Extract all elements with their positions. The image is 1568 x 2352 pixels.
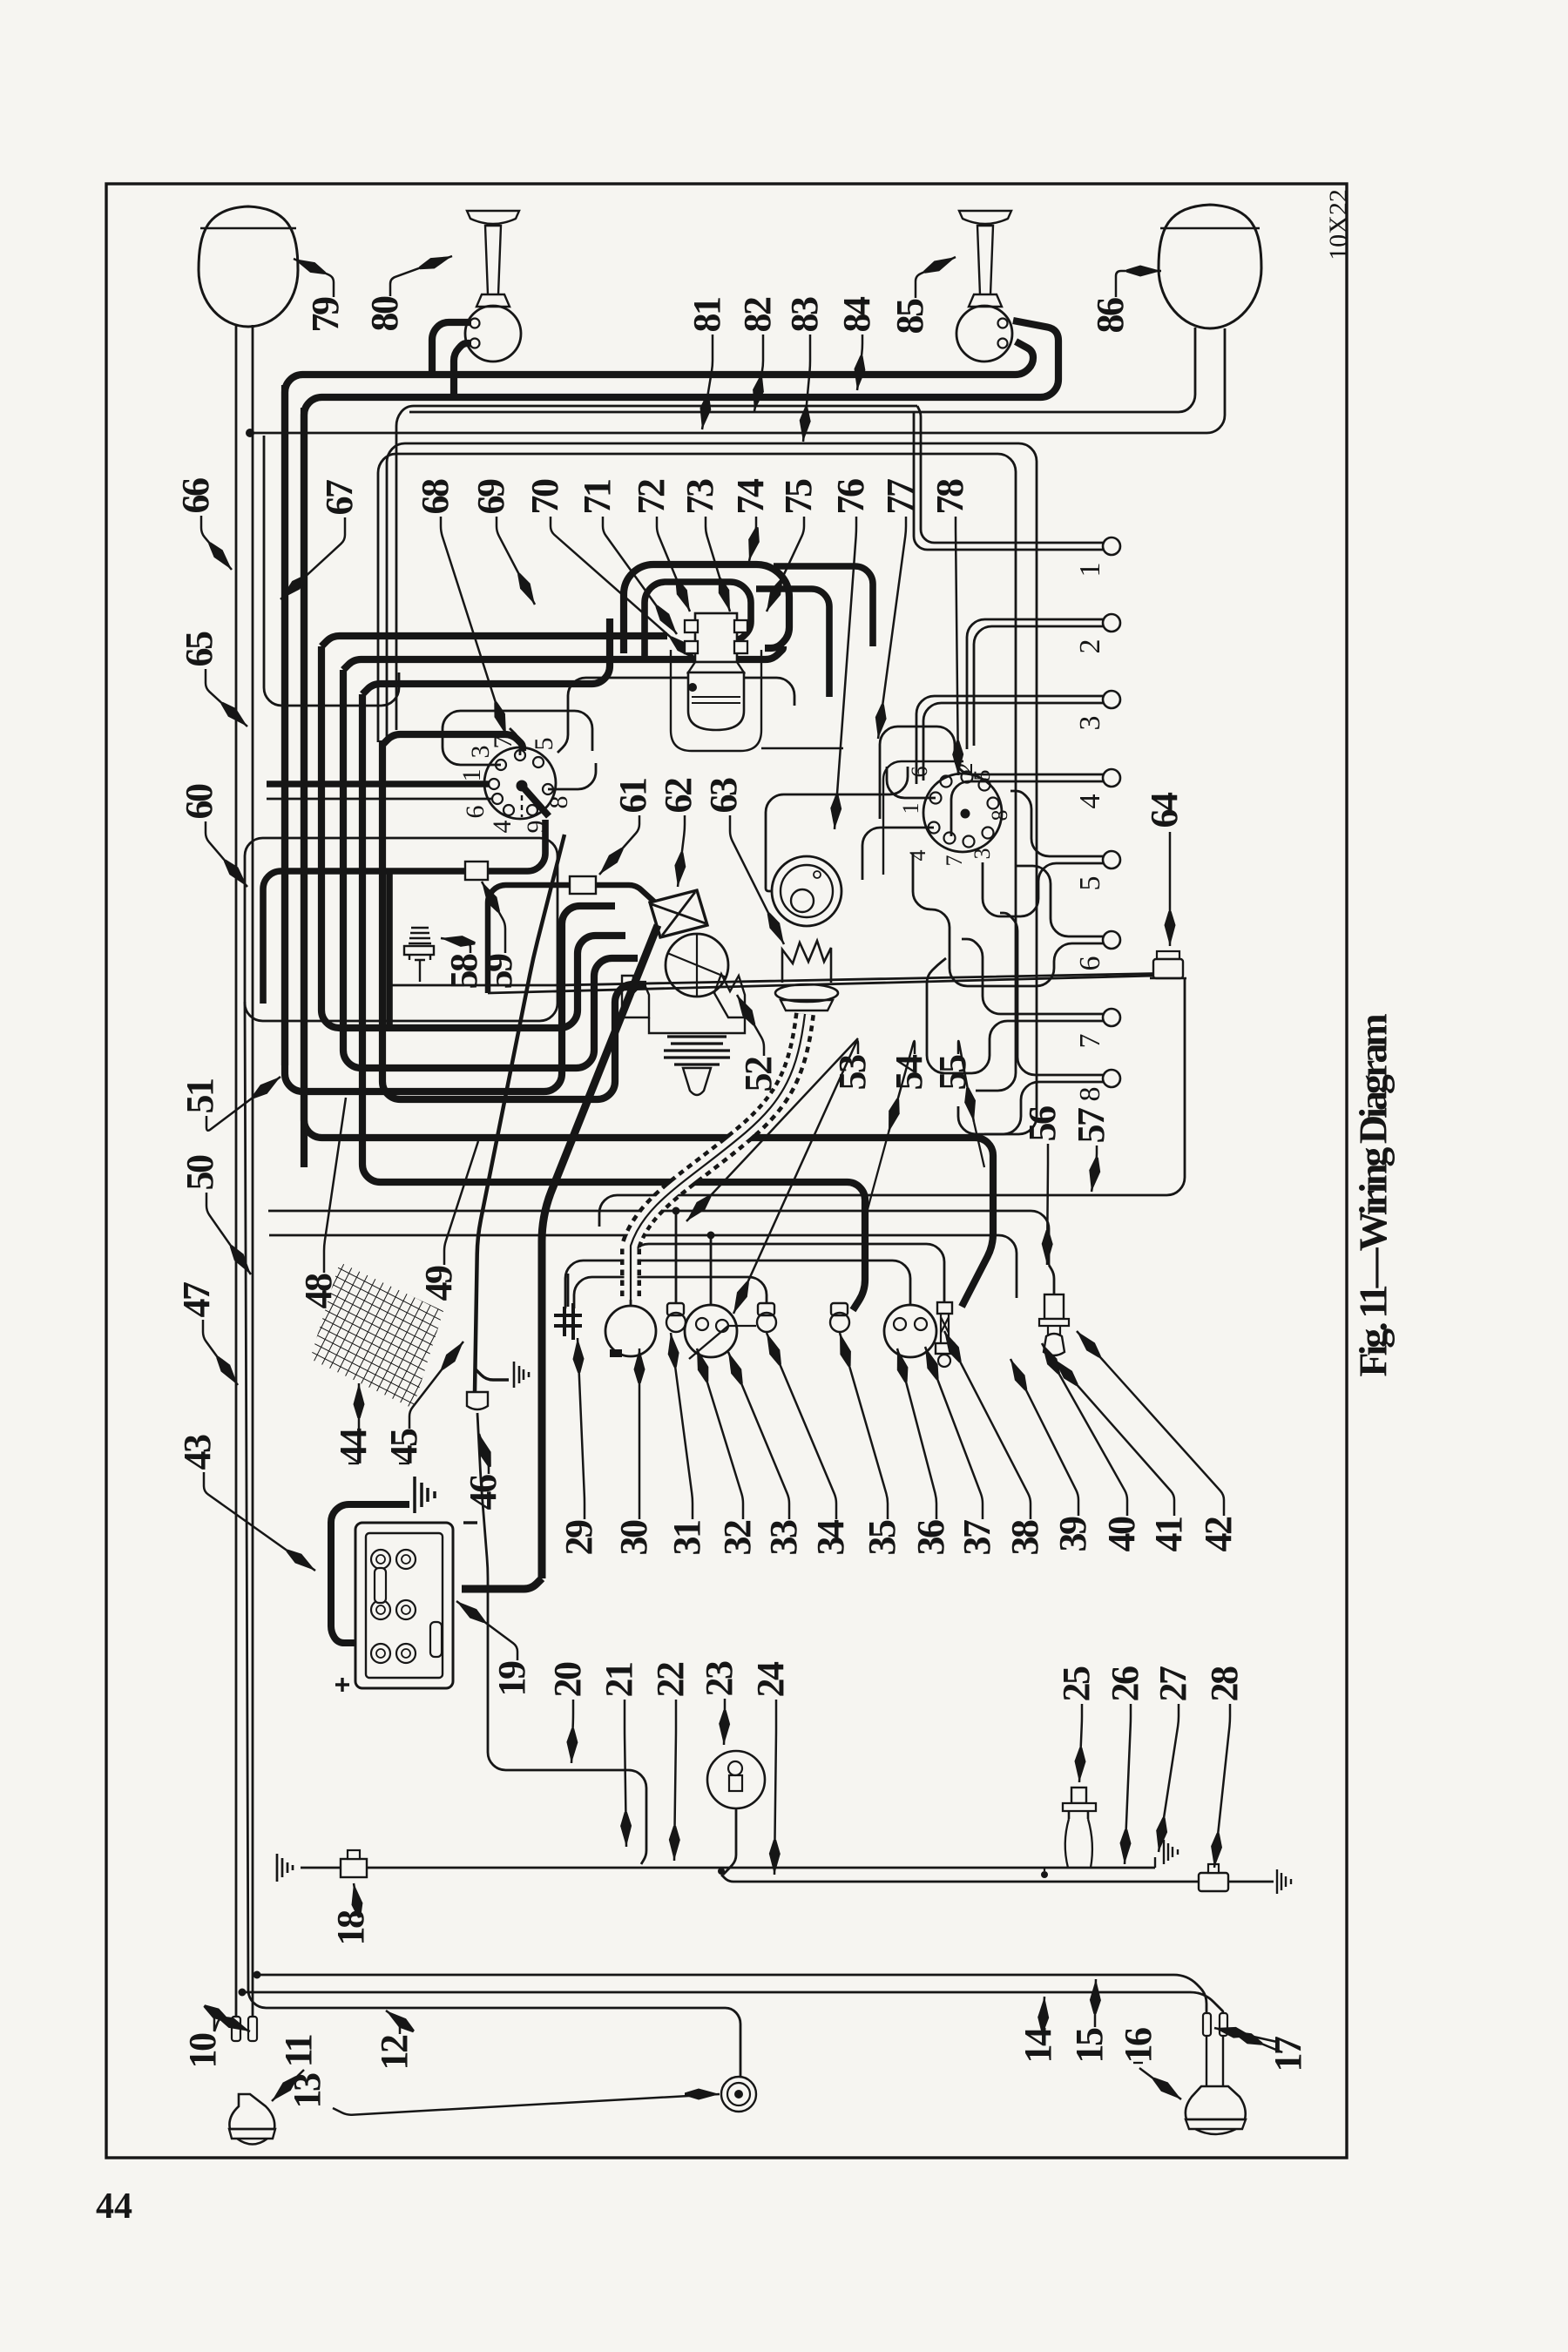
svg-text:21: 21 [598,1663,640,1698]
horn1 top terminal wire [432,322,471,375]
svg-text:84: 84 [835,296,878,333]
svg-text:19: 19 [490,1661,533,1697]
thin rounded frame right of cap1 [558,678,794,753]
svg-text:20: 20 [546,1662,589,1698]
svg-text:50: 50 [179,1155,221,1191]
thick elbow run T4 [343,670,638,1068]
gauge (32/33) [685,1305,737,1357]
battery ground strap [331,1504,409,1643]
terminal 4 wire pair [880,727,1103,819]
connector 59 on primary [465,862,488,880]
svg-text:76: 76 [829,479,872,515]
svg-text:61: 61 [612,779,654,814]
terminal 3 [1103,691,1120,708]
coil high-tension loop outer [624,564,789,653]
svg-text:64: 64 [1143,792,1186,828]
svg-text:18: 18 [329,1910,372,1946]
harness line (81) junction dot [247,429,254,437]
primary wire cap1 to coil region [263,820,545,1004]
fuel gauge wire (tank line) [245,1002,740,2077]
svg-text:28: 28 [1203,1666,1246,1702]
terminal 2 [1103,614,1120,632]
ribbed conduit (speedometer cable) [631,1014,805,1300]
svg-text:66: 66 [174,478,217,514]
terminal 5 wire pair [1010,791,1103,856]
ground left of switch [276,1854,279,1882]
thick elbow run T1 [285,385,615,1092]
tail lamp sockets (25) [1071,1788,1086,1803]
svg-text:67: 67 [318,480,361,516]
svg-text:32: 32 [716,1520,759,1556]
cap1 center & lead [517,781,527,791]
svg-text:77: 77 [879,479,922,515]
svg-text:13: 13 [286,2073,328,2109]
spark terminal 1 wire pair [917,406,1103,543]
svg-text:1: 1 [457,769,486,782]
svg-text:7: 7 [942,855,967,867]
svg-text:63: 63 [702,778,745,814]
dome lamp wire [723,1808,736,1875]
svg-text:39: 39 [1051,1517,1094,1552]
svg-text:6: 6 [1074,956,1106,971]
svg-text:1: 1 [1074,563,1106,578]
stoplight circuit line [301,1867,1155,1869]
svg-text:5: 5 [1074,876,1106,891]
horn feed wire (thick) upper [285,341,1033,1065]
ignition coil (72-75) [695,613,737,662]
svg-text:31: 31 [666,1521,708,1556]
instrument harness h1 [268,1211,1049,1265]
svg-text:14: 14 [1017,2027,1059,2064]
svg-text:29: 29 [558,1520,600,1556]
coil high-tension loop inner [645,582,751,657]
svg-text:82: 82 [736,297,779,333]
dimmer wire down & across [599,978,1185,1227]
plug 29 [554,1303,582,1340]
svg-text:26: 26 [1104,1666,1146,1702]
svg-text:71: 71 [576,480,618,515]
border frame [106,184,1347,2158]
svg-text:7: 7 [1074,1034,1106,1049]
terminal 8 [1103,1070,1120,1087]
leader 70 [551,517,697,660]
svg-text:62: 62 [657,778,700,814]
svg-text:48: 48 [297,1274,340,1309]
terminal 3 wire pair [916,696,1103,784]
thick harness to instruments #A [304,408,993,1307]
leader 69 [497,517,535,605]
leader 68 [441,517,506,735]
svg-text:16: 16 [1117,2028,1159,2064]
harness line (82) [396,406,917,730]
leader 73 [706,517,730,612]
svg-text:12: 12 [373,2035,416,2071]
thick elbow run T6 [382,740,646,1099]
horn button wire [766,767,908,891]
battery signs [463,1521,477,1524]
svg-text:8: 8 [544,796,573,809]
svg-text:49: 49 [417,1266,460,1301]
svg-text:51: 51 [179,1079,221,1114]
terminal 8 wire pair [1000,913,1103,1075]
battery cable to starter (thick diagonal) [542,925,658,1578]
terminal 7 wire pair [962,939,1103,1014]
battery (19) [355,1523,453,1688]
svg-text:40: 40 [1100,1517,1143,1552]
svg-text:74: 74 [729,478,772,515]
svg-text:45: 45 [382,1429,425,1464]
svg-text:34: 34 [809,1519,852,1556]
svg-text:30: 30 [612,1520,655,1556]
harness line lower [378,454,1016,1091]
rear lamp right (16) [1203,2013,1211,2036]
connectors 10 [232,2017,240,2041]
floor wire to dimmer [488,976,1155,993]
spark wire nest around cap1 [443,711,592,765]
headlamp left (79) [199,206,298,327]
svg-text:75: 75 [777,479,820,515]
svg-text:23: 23 [698,1661,740,1697]
terminal 2 wire pair [967,619,1103,749]
coil feed wire B [343,646,783,670]
risers [675,1211,678,1304]
wire 49 (armored loom) [475,835,564,1392]
parking lamp left (11) [229,2094,274,2129]
svg-text:3: 3 [1074,716,1106,731]
horn left (80) [467,211,519,307]
instrument harness h4 [574,1277,767,1308]
svg-text:7: 7 [489,736,517,749]
terminal 7 [1103,1009,1120,1026]
bulb 35 [831,1303,848,1315]
svg-text:4: 4 [905,850,930,862]
coil terminals [685,620,698,632]
instrument harness h3 [565,1260,910,1308]
ground spur on 49 [476,1369,509,1380]
svg-text:81: 81 [686,298,728,333]
terminal 1 [1103,537,1120,555]
svg-text:37: 37 [956,1520,998,1556]
horn button rings (76) [772,856,841,926]
solenoid (62) [650,890,707,937]
stoplight switch (18) [341,1859,367,1877]
horn right (85) [959,211,1011,307]
terminal 6 wire pair [1016,866,1103,936]
fuse holder (38) [937,1302,952,1314]
svg-text:1: 1 [898,803,923,814]
speedometer (30) [605,1306,656,1356]
svg-text:6: 6 [907,767,932,778]
svg-text:70: 70 [524,479,566,515]
big thin racetrack R [245,838,558,1021]
svg-text:80: 80 [363,296,406,332]
gauge (36/37) [884,1305,936,1357]
distributor cap 1 (68) [484,747,556,819]
svg-text:3: 3 [970,848,995,860]
horn1 bottom terminal wire [454,343,471,397]
svg-text:65: 65 [178,632,220,667]
tail feed line right [721,1875,1199,1882]
connector 28 [1199,1873,1228,1891]
tank unit (13) [721,2077,756,2112]
svg-text:85: 85 [889,299,931,335]
svg-text:24: 24 [749,1661,792,1698]
svg-text:73: 73 [679,479,721,515]
svg-text:Fig. 11—Wiring Diagram: Fig. 11—Wiring Diagram [1351,1014,1396,1377]
distributor cap 2 (78) [923,774,1002,852]
svg-text:78: 78 [929,479,971,515]
dimmer switch (64) [1157,951,1179,959]
instrument harness h5 [631,1244,944,1307]
svg-text:15: 15 [1068,2028,1111,2064]
starter drive stack [664,1037,730,1064]
left harness branch W1 [264,436,399,706]
svg-text:25: 25 [1055,1666,1098,1702]
svg-text:10X22: 10X22 [1324,189,1353,260]
svg-text:59: 59 [477,954,520,990]
svg-text:83: 83 [783,297,826,333]
svg-text:41: 41 [1147,1517,1190,1552]
thin container around coil body [671,650,761,751]
bulb 31 [667,1303,684,1315]
crown (63) [782,941,831,983]
leader 78 [956,517,958,775]
ground symbol battery [413,1477,416,1513]
cap2 thin frame [883,761,963,875]
headlamp right (86) [1159,205,1261,328]
leader 71 [603,517,677,634]
headlamp right wires [409,328,1195,412]
svg-text:42: 42 [1197,1517,1240,1552]
svg-text:57: 57 [1070,1108,1112,1144]
svg-text:79: 79 [304,297,347,333]
dome lamp (23) [707,1751,765,1808]
svg-text:52: 52 [737,1057,780,1092]
terminal 5 [1103,851,1120,868]
leader 76 [835,517,856,829]
svg-text:4: 4 [1074,794,1106,809]
leader 72 [657,517,690,612]
oil sender floor line [387,973,1178,985]
svg-text:27: 27 [1152,1666,1194,1702]
battery cable corner into battery [462,1578,542,1589]
lighting switch (40-42) [1049,1265,1054,1294]
leader 75 [767,517,804,612]
svg-text:4: 4 [488,821,517,834]
bulb 34 [758,1303,774,1315]
svg-text:5: 5 [970,770,995,781]
terminal 6 [1103,931,1120,949]
svg-text:43: 43 [176,1435,219,1470]
svg-text:22: 22 [649,1662,692,1698]
headlamp left wires [235,326,238,2018]
svg-text:38: 38 [1004,1520,1046,1556]
thick elbow run T3 [321,646,625,1028]
svg-text:68: 68 [414,479,456,515]
svg-text:11: 11 [277,2035,320,2067]
harness thick wire C [362,618,610,694]
terminal 4 [1103,769,1120,787]
svg-text:33: 33 [762,1520,805,1556]
harness thick wire D [382,734,523,751]
coil secondary wires to right [774,566,873,646]
svg-text:44: 44 [96,2186,132,2227]
svg-text:36: 36 [909,1520,952,1556]
svg-text:46: 46 [462,1475,504,1511]
leader 74 [749,517,756,561]
horn feed wire (thick) lower [304,321,1058,1167]
svg-text:2: 2 [1074,639,1106,654]
rear feed lines bottom [257,1975,1206,2013]
connector 61 [570,876,596,894]
svg-text:8: 8 [987,810,1012,821]
thick harness to instruments #B [362,694,865,1310]
svg-text:35: 35 [861,1520,903,1556]
starter body [666,934,728,997]
svg-text:5: 5 [530,738,558,751]
leader 77 [878,517,906,739]
svg-text:6: 6 [461,806,490,819]
starter flange zigzag [622,974,745,1017]
coil feed wire A [321,636,667,646]
instrument harness h2 [269,1235,1017,1298]
svg-text:56: 56 [1021,1106,1064,1142]
svg-text:10: 10 [181,2033,224,2069]
svg-text:60: 60 [178,784,220,820]
wire below 46 [477,1413,646,1864]
svg-text:86: 86 [1089,298,1132,334]
svg-text:47: 47 [175,1282,218,1318]
svg-text:72: 72 [630,479,672,515]
oil pressure sender (58) [404,928,434,982]
wire through 61 [488,885,570,993]
svg-text:8: 8 [1074,1087,1106,1102]
svg-text:69: 69 [470,479,512,515]
cap2 leads left [887,767,936,798]
svg-text:44: 44 [332,1428,375,1464]
connector 46 [467,1392,488,1409]
primary branch drop [386,871,393,1028]
harness line (83) [387,443,1037,1134]
